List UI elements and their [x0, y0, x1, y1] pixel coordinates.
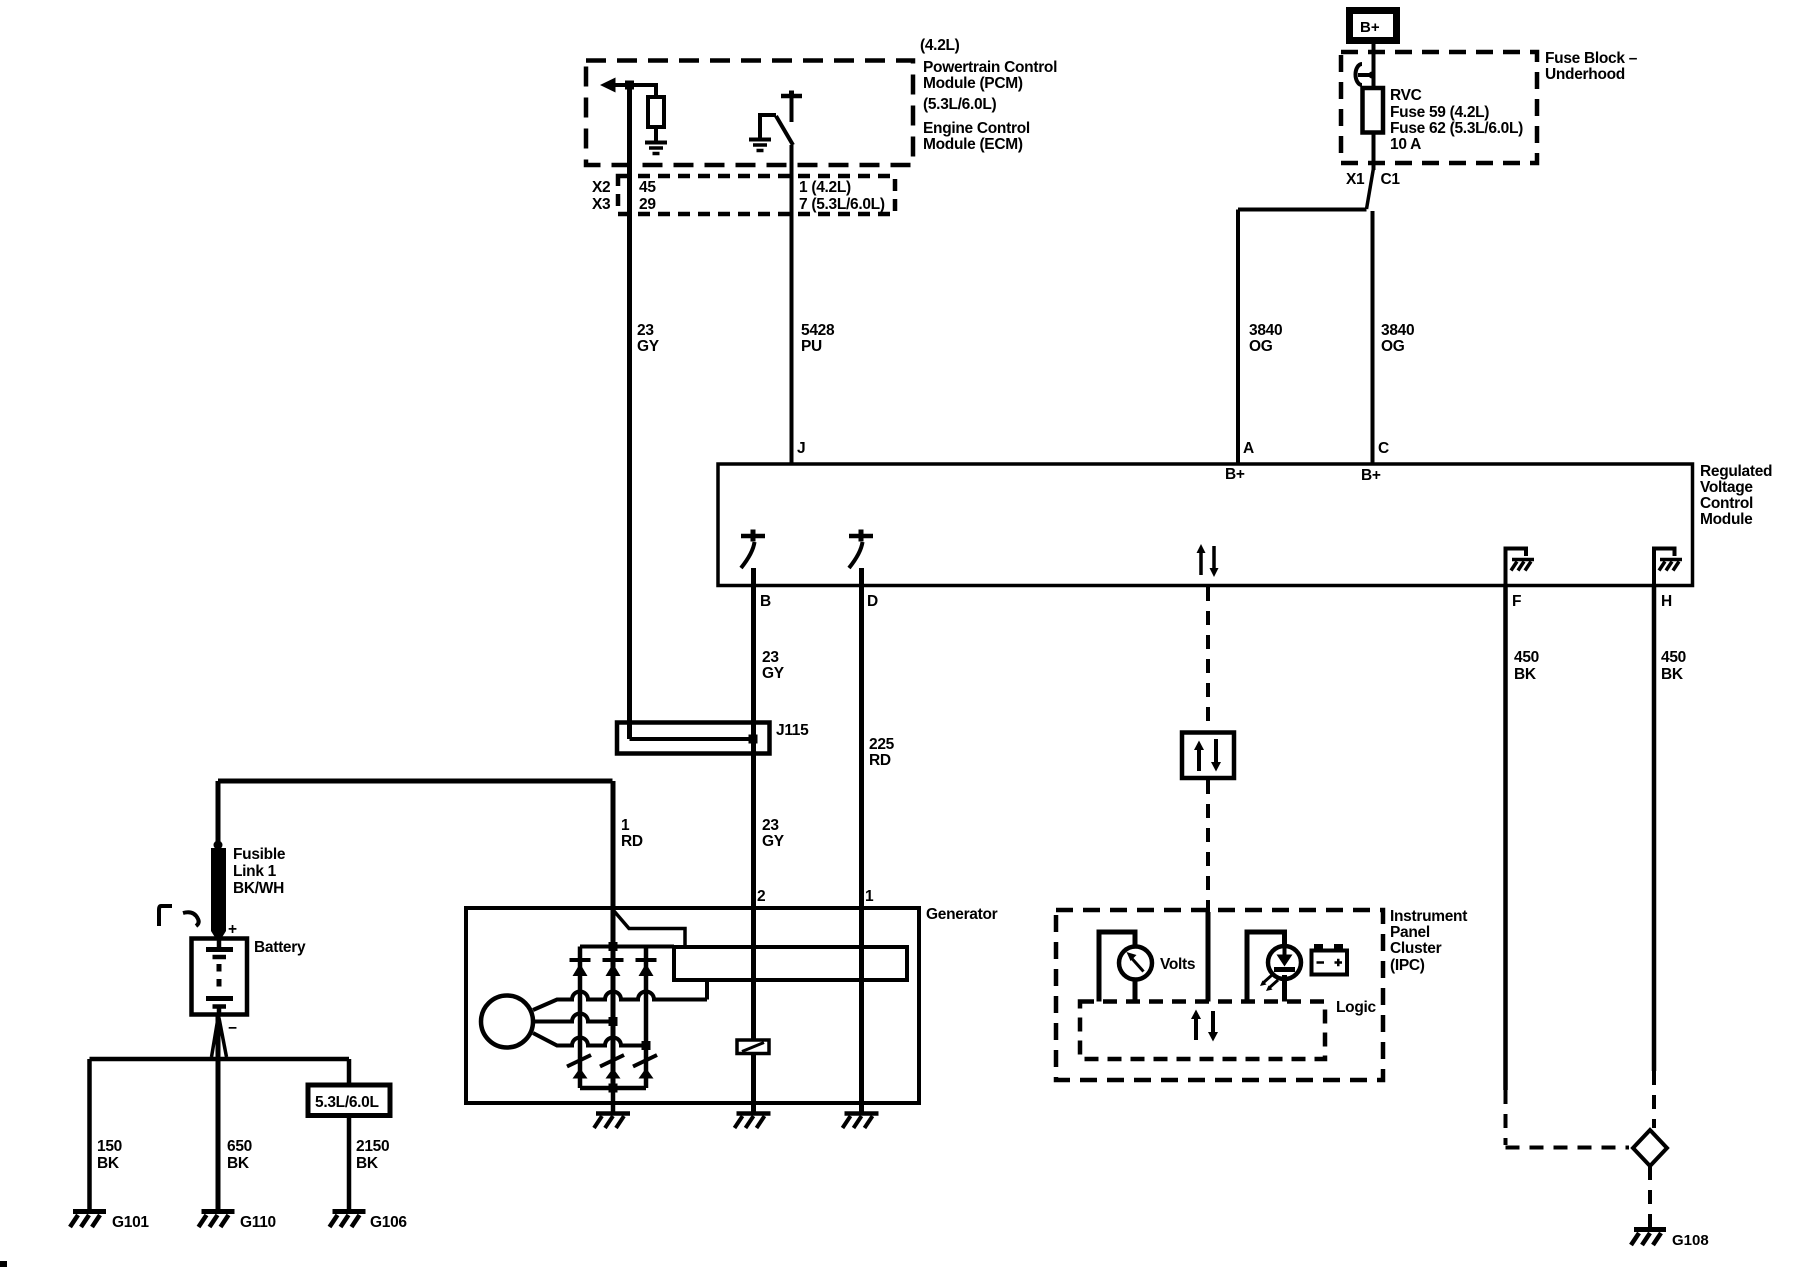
fuse RVC 10A — [1363, 88, 1384, 133]
battery box — [192, 939, 248, 1015]
wire labels 150 BK 650 BK 2150 BK — [97, 1138, 389, 1172]
svg-text:BK/WH: BK/WH — [233, 880, 284, 897]
fusible link 1 BK/WH (thick bar) — [211, 848, 226, 931]
rotor / stator winding circle — [481, 996, 533, 1048]
svg-text:G106: G106 — [370, 1214, 407, 1231]
svg-text:Fuse 62 (5.3L/6.0L): Fuse 62 (5.3L/6.0L) — [1390, 120, 1523, 137]
svg-text:X2: X2 — [592, 179, 610, 196]
Regulated Voltage Control Module box — [718, 464, 1693, 586]
svg-text:(5.3L/6.0L): (5.3L/6.0L) — [923, 96, 996, 113]
junction dot J115 — [749, 735, 758, 744]
plus sign at battery positive — [228, 921, 237, 938]
svg-text:Voltage: Voltage — [1700, 479, 1753, 496]
upper diode 2 — [603, 958, 624, 962]
svg-text:29: 29 — [639, 196, 656, 213]
lower avalanche diode 2 — [600, 1055, 624, 1067]
svg-text:Fusible: Fusible — [233, 846, 286, 863]
B+ labels inside module — [1225, 466, 1381, 484]
internal ground at pin H — [1654, 549, 1675, 586]
rectifier top rail — [580, 945, 674, 949]
dashed wire to G108 — [1648, 1166, 1652, 1227]
svg-text:Engine Control: Engine Control — [923, 120, 1030, 137]
ground bus horizontal — [90, 1057, 350, 1062]
wire label 23 GY (below J115) — [762, 817, 785, 850]
svg-text:GY: GY — [637, 338, 660, 355]
dashed control wire from module to IPC — [1206, 587, 1210, 732]
solid continuation of control wire inside IPC — [1206, 912, 1211, 1002]
wire arrow to resistor branch — [615, 85, 656, 97]
svg-text:GY: GY — [762, 665, 785, 682]
wire 2 to case ground — [751, 908, 756, 1112]
wire kink below X1 C1 — [1367, 168, 1374, 209]
wire 1 RD battery positive bus — [218, 779, 613, 784]
wire 150 BK — [87, 1059, 92, 1209]
svg-text:Generator: Generator — [926, 906, 998, 923]
fusible link label — [233, 846, 286, 897]
svg-text:1: 1 — [865, 888, 874, 905]
upper diode 3 — [636, 958, 657, 962]
svg-text:Battery: Battery — [254, 939, 306, 956]
svg-text:1: 1 — [621, 817, 630, 834]
rectifier right leg — [644, 947, 649, 1089]
wire resistor to ground — [654, 127, 658, 141]
svg-text:3840: 3840 — [1249, 322, 1282, 339]
double arrow (data) inside module — [1199, 551, 1203, 575]
svg-text:B+: B+ — [1360, 19, 1380, 36]
wire label 3840 OG (A) — [1249, 322, 1282, 355]
5.3L/6.0L tag box — [308, 1085, 390, 1116]
PCM connector sub-box (dashed) — [618, 176, 895, 214]
svg-text:450: 450 — [1514, 649, 1539, 666]
svg-text:BK: BK — [227, 1155, 250, 1172]
svg-text:(IPC): (IPC) — [1390, 957, 1425, 974]
double arrow inside Logic — [1194, 1017, 1198, 1040]
svg-text:450: 450 — [1661, 649, 1686, 666]
svg-text:(4.2L): (4.2L) — [920, 37, 960, 54]
wire 3840 OG to module pin C — [1371, 211, 1375, 464]
svg-text:150: 150 — [97, 1138, 122, 1155]
svg-text:Module (ECM): Module (ECM) — [923, 136, 1023, 153]
charge indicator LED — [1268, 946, 1301, 979]
battery internal plates — [217, 939, 222, 948]
svg-text:X1: X1 — [1346, 171, 1365, 188]
svg-text:J115: J115 — [776, 722, 809, 739]
svg-text:G110: G110 — [240, 1214, 276, 1231]
center leg to case ground — [611, 1088, 616, 1112]
inline connector hooks left of battery — [159, 906, 172, 926]
svg-text:BK: BK — [1661, 666, 1684, 683]
svg-text:J: J — [797, 440, 805, 457]
svg-text:A: A — [1243, 440, 1254, 457]
svg-text:G101: G101 — [112, 1214, 149, 1231]
wire labels 450 BK — [1514, 649, 1686, 683]
wire label 1 RD — [621, 817, 643, 850]
resistor (regulator sense) inside PCM — [648, 97, 664, 127]
J115 splice box — [617, 723, 770, 754]
svg-text:PU: PU — [801, 338, 822, 355]
switch symbol at pin D inside module — [849, 534, 873, 539]
switch blade — [776, 116, 793, 145]
node dot above fusible link — [214, 841, 223, 850]
LED emission arrows — [1263, 975, 1272, 983]
PCM / ECM dashed module box — [586, 61, 913, 166]
Fuse Block - Underhood dashed box — [1341, 52, 1537, 163]
switch symbol at pin B inside module — [741, 534, 765, 539]
wire 225 RD pin D down to generator pin 1 — [859, 568, 864, 908]
svg-text:F: F — [1512, 593, 1521, 610]
svg-text:7 (5.3L/6.0L): 7 (5.3L/6.0L) — [799, 196, 885, 213]
connector hook symbol inside fuse block — [1356, 64, 1363, 85]
rectifier left leg — [578, 947, 583, 1089]
ground G110 — [202, 1209, 235, 1214]
svg-text:Instrument: Instrument — [1390, 908, 1467, 925]
junction V at negative bus — [212, 1018, 219, 1057]
internal ground at pin F — [1506, 549, 1527, 586]
splice diamond — [1633, 1130, 1667, 1166]
svg-text:C1: C1 — [1381, 171, 1401, 188]
node junction on wire 23 GY — [625, 81, 634, 90]
svg-text:23: 23 — [637, 322, 654, 339]
wire label 3840 OG (C) — [1381, 322, 1414, 355]
upper diode 1 — [570, 958, 591, 962]
pin labels B D F H — [760, 593, 1672, 610]
connector / pin labels X2 X3 45 29 — [592, 179, 885, 213]
svg-text:Module (PCM): Module (PCM) — [923, 75, 1023, 92]
rectifier bottom rail — [580, 1086, 646, 1091]
svg-text:B+: B+ — [1361, 467, 1381, 484]
bus to stator connector — [705, 980, 709, 1000]
svg-text:Module: Module — [1700, 511, 1753, 528]
volts gauge loop wire — [1099, 932, 1135, 1002]
minus sign below battery — [228, 1020, 237, 1037]
wire 23 GY pin B down to generator pin 2 — [751, 568, 756, 908]
wire 23 GY from PCM pin 45/29 down to J115 — [627, 85, 632, 739]
wire 450 BK from pin F — [1503, 585, 1508, 1090]
Battery label — [254, 939, 306, 956]
volts gauge — [1119, 947, 1152, 980]
wire 3840 OG to module pin A — [1236, 210, 1240, 465]
svg-text:G108: G108 — [1672, 1232, 1709, 1249]
wire label 5428 PU — [801, 322, 835, 355]
svg-text:OG: OG — [1381, 338, 1405, 355]
stator phase line 3 — [533, 1033, 650, 1046]
svg-text:650: 650 — [227, 1138, 252, 1155]
svg-text:Underhood: Underhood — [1545, 66, 1625, 83]
ground (3-bar) under resistor — [645, 141, 667, 145]
pin labels A and C — [1243, 440, 1389, 457]
svg-text:Panel: Panel — [1390, 924, 1430, 941]
svg-text:+: + — [228, 921, 237, 938]
Instrument Panel Cluster dashed box — [1056, 910, 1383, 1080]
stator phase line 2 — [533, 1014, 617, 1022]
svg-text:23: 23 — [762, 817, 779, 834]
svg-text:Link 1: Link 1 — [233, 863, 277, 880]
svg-text:BK: BK — [356, 1155, 379, 1172]
wire 2150 BK lower — [347, 1116, 352, 1210]
svg-text:5428: 5428 — [801, 322, 835, 339]
svg-text:5.3L/6.0L: 5.3L/6.0L — [315, 1094, 379, 1111]
boxed double-arrow (serial data symbol) — [1182, 733, 1234, 779]
svg-text:−: − — [228, 1020, 237, 1037]
ground G101 — [73, 1209, 106, 1214]
lower avalanche diode 1 — [567, 1055, 591, 1067]
svg-text:B+: B+ — [1225, 466, 1245, 483]
fuse labels — [1346, 50, 1638, 188]
ground (3-bar) under switch — [749, 138, 771, 142]
splice bus inside J115 — [630, 737, 754, 741]
Generator box — [466, 908, 919, 1103]
svg-text:1 (4.2L): 1 (4.2L) — [799, 179, 851, 196]
generator case ground (center) — [596, 1111, 630, 1116]
svg-text:RVC: RVC — [1390, 87, 1422, 104]
svg-text:45: 45 — [639, 179, 656, 196]
svg-text:RD: RD — [869, 752, 891, 769]
switch ground-side post — [760, 115, 776, 138]
wire 1 to case ground — [859, 908, 864, 1112]
svg-text:B: B — [760, 593, 771, 610]
svg-text:2: 2 — [757, 888, 765, 905]
svg-text:BK: BK — [97, 1155, 120, 1172]
brush / test component on wire 2 — [737, 1040, 769, 1054]
svg-text:Control: Control — [1700, 495, 1753, 512]
wire label 225 RD — [869, 736, 895, 769]
wire 1 RD into generator and rectifier center leg — [611, 781, 616, 1088]
svg-text:Fuse Block –: Fuse Block – — [1545, 50, 1638, 67]
svg-text:Powertrain Control: Powertrain Control — [923, 59, 1057, 76]
svg-text:225: 225 — [869, 736, 895, 753]
wire branch to pin A — [1238, 208, 1367, 212]
lower avalanche diode 3 — [633, 1055, 657, 1067]
svg-text:BK: BK — [1514, 666, 1537, 683]
ground G106 — [333, 1209, 366, 1214]
module name — [1700, 463, 1772, 528]
svg-text:Logic: Logic — [1336, 999, 1377, 1016]
wire 5428 PU from switch down to module pin J — [790, 145, 794, 464]
pin label J — [797, 440, 805, 457]
svg-text:Volts: Volts — [1160, 956, 1195, 973]
wire down to fusible link — [216, 781, 221, 842]
stator phase line 1 — [533, 992, 707, 1011]
output bus plate — [674, 947, 907, 980]
page corner mark — [0, 1261, 7, 1267]
svg-text:GY: GY — [762, 833, 785, 850]
svg-text:2150: 2150 — [356, 1138, 389, 1155]
J115 label — [776, 722, 809, 739]
svg-text:C: C — [1378, 440, 1389, 457]
svg-text:Cluster: Cluster — [1390, 940, 1442, 957]
wire label 23 GY — [637, 322, 660, 355]
wire label 23 GY (below B) — [762, 649, 785, 682]
wire B+ to fuse — [1372, 44, 1376, 88]
Logic dashed box — [1080, 1002, 1325, 1060]
wire 2150 BK upper — [347, 1059, 352, 1085]
PCM label text — [920, 37, 1057, 153]
arrow terminal inside PCM — [600, 78, 616, 93]
svg-text:X3: X3 — [592, 196, 611, 213]
battery negative wire down to G110 — [216, 1015, 221, 1210]
ground G108 — [1634, 1227, 1666, 1232]
svg-text:D: D — [867, 593, 878, 610]
svg-text:OG: OG — [1249, 338, 1273, 355]
svg-text:Fuse 59 (4.2L): Fuse 59 (4.2L) — [1390, 104, 1489, 121]
wire 450 BK from pin H — [1652, 585, 1657, 1071]
svg-text:10 A: 10 A — [1390, 136, 1421, 153]
switch (voltage control) inside PCM: fixed contact T-bar — [781, 94, 802, 99]
svg-text:Regulated: Regulated — [1700, 463, 1772, 480]
jog branch to output bus — [614, 911, 685, 945]
B+ feed box — [1350, 11, 1397, 41]
svg-text:H: H — [1661, 593, 1672, 610]
telltale loop wire — [1247, 932, 1285, 1002]
svg-text:RD: RD — [621, 833, 643, 850]
junction dot top rail — [609, 942, 618, 951]
generator pin labels 2 and 1 — [757, 888, 874, 905]
battery telltale icon — [1312, 951, 1348, 975]
svg-text:3840: 3840 — [1381, 322, 1414, 339]
svg-text:23: 23 — [762, 649, 779, 666]
